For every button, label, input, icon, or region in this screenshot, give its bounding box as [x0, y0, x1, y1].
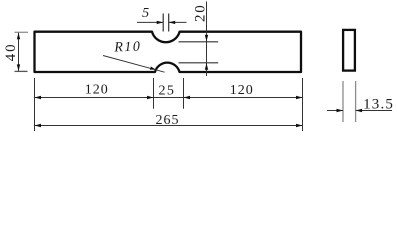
svg-text:R10: R10 — [113, 40, 142, 56]
svg-text:20: 20 — [192, 3, 208, 22]
svg-text:13.5: 13.5 — [363, 97, 394, 113]
svg-text:25: 25 — [158, 84, 175, 99]
svg-text:5: 5 — [142, 6, 149, 21]
svg-text:40: 40 — [3, 43, 19, 62]
svg-text:120: 120 — [85, 83, 109, 98]
svg-text:120: 120 — [230, 83, 254, 98]
svg-text:265: 265 — [156, 113, 180, 128]
